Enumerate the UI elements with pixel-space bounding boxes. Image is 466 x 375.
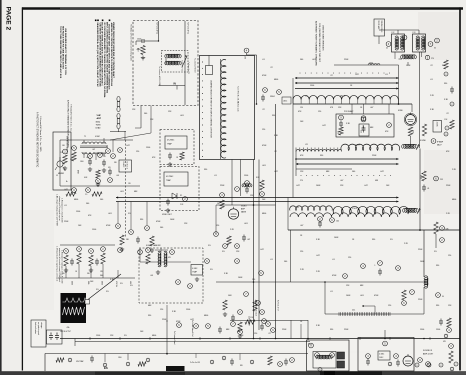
svg-text:.01: .01 bbox=[262, 59, 265, 61]
svg-text:35: 35 bbox=[434, 48, 436, 50]
svg-text:220K: 220K bbox=[162, 319, 167, 321]
svg-text:.001: .001 bbox=[180, 115, 184, 117]
svg-text:TO PIX: TO PIX bbox=[362, 125, 364, 131]
circled ref 15 bbox=[330, 218, 335, 223]
svg-text:470K: 470K bbox=[262, 145, 267, 147]
IF row3 winding line A bbox=[116, 197, 399, 199]
wire tuner vertical left bbox=[158, 21, 160, 41]
wire IF link line bbox=[334, 64, 399, 66]
capacitor C60 bbox=[379, 269, 381, 272]
svg-text:To Junction of R2 & C6B: To Junction of R2 & C6B bbox=[158, 66, 161, 86]
svg-text:90: 90 bbox=[442, 296, 444, 298]
svg-text:120: 120 bbox=[388, 305, 391, 307]
svg-text:3900: 3900 bbox=[420, 175, 422, 179]
svg-text:2.5: 2.5 bbox=[85, 194, 87, 196]
wire IF left rail long bbox=[292, 104, 294, 198]
circled bottom right row bbox=[415, 363, 419, 367]
svg-text:4.5MC: 4.5MC bbox=[379, 354, 385, 356]
svg-text:40: 40 bbox=[386, 48, 388, 50]
svg-text:To Pin 2 of V7: To Pin 2 of V7 bbox=[277, 300, 279, 311]
ground mid bbox=[121, 247, 123, 249]
wire PC riser bbox=[307, 320, 309, 340]
circled ref 5 bbox=[111, 154, 116, 159]
svg-text:6800: 6800 bbox=[152, 335, 156, 337]
wire right col drop bbox=[423, 230, 425, 277]
wire waveform pointer bbox=[86, 274, 121, 301]
wire left bus mid bbox=[60, 185, 140, 187]
svg-text:MIXER: MIXER bbox=[58, 173, 65, 175]
svg-text:330: 330 bbox=[114, 162, 117, 164]
svg-text:IF AMP: IF AMP bbox=[437, 141, 444, 144]
svg-text:IN: IN bbox=[174, 84, 177, 86]
resistor R30 bbox=[434, 222, 438, 234]
resistor R afamp bbox=[422, 124, 426, 136]
svg-text:USE SHIELDED LEAD TO TERMINAL: USE SHIELDED LEAD TO TERMINAL 3 OF COIL bbox=[64, 28, 67, 76]
svg-text:To Pin 7 of V1: To Pin 7 of V1 bbox=[181, 60, 183, 71]
wire bottom center bus bbox=[230, 320, 308, 322]
svg-text:470K: 470K bbox=[332, 275, 337, 277]
svg-text:4.5MC: 4.5MC bbox=[435, 122, 437, 128]
svg-text:6800: 6800 bbox=[274, 79, 278, 81]
svg-text:330: 330 bbox=[320, 155, 323, 157]
wire mixer frame bbox=[336, 114, 394, 137]
tuner output wire 1 bbox=[140, 106, 142, 129]
svg-text:270: 270 bbox=[300, 180, 303, 182]
svg-text:To Point of VC: To Point of VC bbox=[156, 22, 159, 35]
svg-text:100K: 100K bbox=[420, 261, 425, 263]
IF row2 winding line C bbox=[296, 168, 352, 170]
svg-text:X1: X1 bbox=[180, 195, 182, 197]
svg-text:.01: .01 bbox=[430, 79, 433, 81]
IF row1 winding line A bbox=[295, 77, 399, 79]
svg-text:SOUND IF: SOUND IF bbox=[423, 350, 433, 352]
svg-text:6: 6 bbox=[451, 369, 452, 371]
label IF AMP 6BZ7 bbox=[431, 139, 436, 144]
svg-text:.047: .047 bbox=[190, 319, 194, 321]
svg-text:330: 330 bbox=[140, 219, 143, 221]
capacitor C50 bbox=[232, 315, 234, 318]
svg-text:120: 120 bbox=[160, 309, 163, 311]
svg-text:To Point of VC: To Point of VC bbox=[187, 22, 190, 35]
svg-text:TWIN: TWIN bbox=[96, 125, 101, 127]
resistor R22 bbox=[220, 200, 224, 209]
svg-text:6800: 6800 bbox=[452, 199, 456, 201]
svg-text:4TH IF: 4TH IF bbox=[355, 145, 360, 147]
ground tuner bbox=[142, 56, 144, 58]
svg-text:220K: 220K bbox=[418, 299, 423, 301]
PC bottom blob bbox=[324, 371, 335, 375]
wire T2 T3 top link bbox=[379, 29, 419, 31]
circled refs right mid 2 bbox=[410, 290, 415, 295]
capacitor C20 bbox=[423, 185, 425, 188]
svg-text:CHANNEL SELECTOR SWITCH SHOWN: CHANNEL SELECTOR SWITCH SHOWN IN CHANNEL… bbox=[210, 80, 213, 139]
svg-text:VIEWED FROM FRONT KNOB END OF: VIEWED FROM FRONT KNOB END OF CONTROL SH… bbox=[112, 22, 115, 79]
IF transformer T2 can bbox=[392, 34, 405, 52]
resistor R20 3900 bbox=[422, 171, 426, 181]
wire L14 left bbox=[399, 58, 403, 60]
svg-text:560: 560 bbox=[100, 199, 103, 201]
transformer T1 primary bbox=[165, 54, 181, 58]
svg-text:.001: .001 bbox=[360, 295, 364, 297]
svg-text:6: 6 bbox=[223, 358, 224, 360]
wire center drop 2 bbox=[258, 160, 260, 331]
inductor L10 1000 bbox=[368, 64, 380, 65]
transformer T1 dashed enclosure bbox=[162, 51, 189, 73]
VHF tuner dashed enclosure bbox=[133, 21, 198, 106]
box sound takeoff bbox=[191, 265, 203, 276]
IF row1 winding line C bbox=[295, 88, 399, 90]
svg-text:1500: 1500 bbox=[420, 329, 424, 331]
resistor R23 bbox=[227, 236, 231, 245]
IF transformer T3 can bbox=[413, 34, 426, 52]
svg-text:120: 120 bbox=[318, 111, 321, 113]
svg-text:VIDEO: VIDEO bbox=[241, 206, 247, 208]
AF amp small box bbox=[433, 121, 442, 133]
svg-text:6800: 6800 bbox=[204, 315, 208, 317]
circled refs bottom center bbox=[177, 323, 182, 328]
svg-text:-24-: -24- bbox=[66, 327, 70, 329]
resistor R4 bbox=[63, 155, 67, 164]
tube V5 sound bbox=[403, 356, 413, 366]
svg-text:47: 47 bbox=[106, 146, 108, 148]
legend note box bbox=[31, 320, 46, 347]
svg-text:Italicized values: Italicized values bbox=[34, 322, 37, 334]
svg-text:TRAP: TRAP bbox=[192, 270, 198, 273]
svg-text:L14: L14 bbox=[402, 56, 405, 58]
svg-text:.01: .01 bbox=[385, 74, 388, 76]
svg-text:560: 560 bbox=[100, 275, 103, 277]
svg-text:330: 330 bbox=[204, 169, 207, 171]
svg-text:1500: 1500 bbox=[436, 329, 440, 331]
svg-text:470: 470 bbox=[337, 131, 339, 134]
transformer T1 tuning arrow bbox=[182, 56, 187, 67]
wire sound feeds bbox=[384, 330, 386, 338]
resistor bank bbox=[64, 255, 68, 266]
circled refs mixer bbox=[361, 117, 366, 122]
svg-text:100K: 100K bbox=[316, 185, 321, 187]
wire mixer frame drops bbox=[351, 104, 353, 114]
svg-text:120: 120 bbox=[300, 107, 303, 109]
resistor R12 470 bbox=[339, 127, 343, 135]
node junction row1 bbox=[398, 103, 400, 105]
svg-text:100K: 100K bbox=[238, 277, 243, 279]
capacitor C7 bbox=[137, 237, 139, 240]
IF row1 coil bbox=[293, 95, 398, 99]
channel selector switch enclosure bbox=[200, 56, 255, 160]
svg-text:330: 330 bbox=[87, 273, 90, 275]
resistor R6 bbox=[66, 192, 76, 196]
svg-text:TRAP: TRAP bbox=[166, 179, 172, 182]
bus tick marks bbox=[89, 337, 91, 340]
channel selector coil stack bbox=[221, 60, 226, 159]
svg-text:L31: L31 bbox=[296, 207, 299, 209]
svg-text:120: 120 bbox=[128, 183, 131, 185]
svg-text:220K: 220K bbox=[446, 185, 451, 187]
wire selector feed bbox=[256, 55, 258, 104]
svg-text:PIX IF AMP: PIX IF AMP bbox=[344, 110, 354, 113]
diode X1 bbox=[172, 193, 177, 199]
svg-text:1500: 1500 bbox=[92, 229, 96, 231]
wire row3 left rail bbox=[287, 198, 289, 231]
svg-text:.01: .01 bbox=[214, 175, 217, 177]
svg-text:© Howard W. Sams & Co., Inc.: © Howard W. Sams & Co., Inc. 1955 bbox=[39, 116, 42, 152]
tube V1 mixer bbox=[406, 115, 416, 125]
svg-text:330: 330 bbox=[372, 239, 375, 241]
right mid parts bbox=[447, 318, 451, 327]
svg-text:IF AGC: IF AGC bbox=[122, 162, 125, 168]
svg-text:.22: .22 bbox=[262, 109, 265, 111]
svg-text:120: 120 bbox=[254, 333, 257, 335]
schematic right border bbox=[459, 7, 461, 370]
svg-text:Tuner Part No. 94-8A (Std. Coi: Tuner Part No. 94-8A (Std. Coil) bbox=[237, 86, 240, 112]
svg-text:© Howard W. Sams & Co., Inc.: © Howard W. Sams & Co., Inc. bbox=[70, 104, 73, 132]
wire mid drops bbox=[117, 202, 119, 224]
svg-text:.047: .047 bbox=[64, 189, 68, 191]
IF row1 winding line B bbox=[295, 82, 399, 84]
wire T4 leads bbox=[83, 140, 85, 144]
svg-text:.1: .1 bbox=[374, 265, 375, 267]
wire C1 to grid bbox=[147, 40, 159, 42]
IF transformer T3 winding 2 bbox=[422, 36, 425, 50]
svg-text:.047: .047 bbox=[370, 107, 373, 109]
svg-text:300Ω: 300Ω bbox=[96, 122, 101, 124]
wire bottom bus stub bbox=[74, 339, 76, 347]
svg-text:.22: .22 bbox=[274, 151, 277, 153]
svg-text:820: 820 bbox=[240, 365, 243, 367]
wire L14 to rail bbox=[407, 62, 409, 65]
capacitor C70 bbox=[367, 359, 369, 362]
svg-text:6CB6: 6CB6 bbox=[398, 110, 403, 112]
svg-text:.22: .22 bbox=[270, 67, 273, 69]
svg-text:120: 120 bbox=[262, 129, 265, 131]
svg-text:.047: .047 bbox=[300, 225, 303, 227]
wire bottom bus 2 bbox=[75, 341, 310, 343]
bottom extra parts right bbox=[388, 362, 392, 366]
wire contrast drops bbox=[253, 290, 255, 339]
svg-text:1500: 1500 bbox=[80, 161, 84, 163]
wire bus y353 drop right bbox=[239, 354, 241, 361]
waveform trace bbox=[63, 307, 85, 315]
wire main bottom bus bbox=[60, 338, 460, 340]
svg-text:To Junction R4 C9: To Junction R4 C9 bbox=[194, 58, 197, 72]
circled ref 4 bbox=[106, 149, 111, 154]
svg-text:B+: B+ bbox=[66, 181, 68, 183]
svg-text:PC-1: PC-1 bbox=[308, 344, 312, 346]
sound discriminator box bbox=[378, 351, 390, 360]
node junction row3 bbox=[419, 229, 421, 231]
potentiometer contrast bbox=[253, 300, 257, 311]
svg-text:120: 120 bbox=[136, 151, 139, 153]
svg-text:120: 120 bbox=[348, 257, 351, 259]
svg-text:140: 140 bbox=[336, 221, 339, 223]
svg-text:220K: 220K bbox=[64, 221, 69, 223]
svg-text:3: 3 bbox=[147, 360, 148, 362]
wire center drop 3 bbox=[231, 160, 233, 206]
svg-text:.01: .01 bbox=[270, 259, 273, 261]
svg-text:470K: 470K bbox=[176, 321, 181, 323]
svg-text:.01: .01 bbox=[330, 291, 333, 293]
PC module box bbox=[307, 340, 350, 371]
svg-text:470K: 470K bbox=[262, 75, 267, 77]
node 160 callout bbox=[244, 48, 249, 53]
wire T1 to frame bbox=[165, 58, 167, 65]
circled refs mid left bbox=[116, 224, 121, 229]
svg-text:470: 470 bbox=[108, 167, 111, 169]
svg-text:5%: 5% bbox=[124, 335, 127, 337]
circled refs mid left 2 bbox=[118, 248, 123, 253]
wire IF row1 right drop bbox=[398, 65, 400, 104]
right edge resistor bbox=[449, 351, 453, 363]
svg-text:220K: 220K bbox=[344, 59, 349, 61]
svg-text:120: 120 bbox=[216, 225, 219, 227]
svg-text:1500: 1500 bbox=[137, 39, 141, 41]
resistor video cluster bbox=[260, 180, 264, 190]
svg-text:100K: 100K bbox=[346, 295, 351, 297]
svg-text:220K: 220K bbox=[344, 329, 349, 331]
svg-text:330: 330 bbox=[148, 315, 151, 317]
capacitor C22 bbox=[246, 187, 248, 190]
svg-text:.047: .047 bbox=[92, 149, 95, 151]
waveform photo black box bbox=[61, 293, 87, 323]
svg-text:L13: L13 bbox=[413, 32, 416, 34]
svg-text:5%: 5% bbox=[434, 251, 437, 253]
svg-text:3RD IF: 3RD IF bbox=[340, 96, 345, 98]
svg-text:255: 255 bbox=[440, 179, 443, 181]
ground bottom left bbox=[65, 268, 67, 270]
svg-text:5%: 5% bbox=[96, 289, 99, 291]
resistor R5 bbox=[72, 152, 76, 161]
wire bottom center riser 1 bbox=[166, 320, 168, 355]
PC inductor L70 bbox=[316, 355, 332, 359]
capacitor C12 bbox=[340, 121, 342, 124]
wire cap left lead bbox=[136, 40, 140, 42]
svg-text:.001: .001 bbox=[244, 223, 248, 225]
wire video amp mesh bbox=[216, 204, 276, 206]
wire AF riser bbox=[411, 104, 413, 112]
wire bottom bus 4 bbox=[240, 351, 370, 353]
sound IF box bbox=[358, 338, 414, 372]
IF row2 dotted shield bbox=[300, 174, 303, 177]
svg-text:5: 5 bbox=[251, 362, 252, 364]
sound trap dashed box bbox=[139, 248, 203, 303]
svg-text:6BZ7: 6BZ7 bbox=[437, 145, 442, 147]
svg-text:.22: .22 bbox=[268, 333, 271, 335]
svg-text:The Make of Tuner Used is Inte: The Make of Tuner Used is Interchangeabl… bbox=[130, 24, 133, 61]
svg-text:330: 330 bbox=[330, 329, 333, 331]
svg-text:VHF: VHF bbox=[97, 115, 102, 117]
trap box 2 dashed bbox=[160, 167, 199, 211]
svg-text:.22: .22 bbox=[446, 113, 449, 115]
svg-text:.001: .001 bbox=[312, 59, 316, 61]
wire antenna to tuner bbox=[118, 129, 120, 132]
wire delay line ends bbox=[390, 313, 424, 315]
interlock jack bbox=[57, 161, 63, 167]
svg-text:5%: 5% bbox=[120, 283, 123, 285]
wire bottom left bus bbox=[60, 244, 115, 246]
svg-text:USED IN SOME VERSIONS: USED IN SOME VERSIONS bbox=[321, 25, 323, 51]
svg-text:A PHOTOFACT STANDARD NOTATI: A PHOTOFACT STANDARD NOTATION SCHEMATIC bbox=[36, 112, 39, 168]
svg-text:To Term 3: To Term 3 bbox=[125, 162, 128, 169]
svg-text:L11: L11 bbox=[305, 96, 308, 98]
svg-text:.22: .22 bbox=[430, 65, 433, 67]
svg-text:135: 135 bbox=[103, 156, 106, 158]
svg-text:.01: .01 bbox=[427, 188, 429, 190]
wire bottom center riser 2 bbox=[290, 320, 292, 339]
ground contrast bbox=[224, 312, 226, 314]
capacitor C30 bbox=[319, 221, 321, 224]
wire row3 bottom rail bbox=[288, 229, 460, 231]
sound takeoff parts bbox=[146, 254, 150, 264]
circled ref 3 bbox=[98, 153, 103, 158]
trap box 1 dashed bbox=[160, 130, 194, 165]
svg-text:470K: 470K bbox=[106, 225, 111, 227]
svg-text:330: 330 bbox=[444, 83, 447, 85]
svg-text:3: 3 bbox=[211, 362, 212, 364]
svg-text:ANT: ANT bbox=[97, 117, 102, 120]
svg-text:1500: 1500 bbox=[76, 211, 80, 213]
svg-text:1000: 1000 bbox=[369, 63, 373, 65]
black component bar bbox=[166, 366, 185, 371]
wire row3 rail to bus bbox=[290, 230, 292, 282]
spark gap box bbox=[47, 330, 63, 344]
inductor L14 peaking bbox=[401, 55, 417, 59]
wire RF bus upper bbox=[60, 139, 133, 141]
node video out bbox=[253, 204, 255, 206]
resistor R60 bbox=[402, 290, 406, 300]
svg-text:47.25MC: 47.25MC bbox=[167, 140, 175, 142]
left cluster small parts bbox=[96, 170, 100, 178]
inductor L30 bbox=[403, 208, 419, 212]
svg-text:SOUND: SOUND bbox=[420, 140, 427, 142]
module box drops bbox=[104, 354, 106, 363]
svg-text:100K: 100K bbox=[170, 219, 175, 221]
svg-text:470K: 470K bbox=[374, 295, 379, 297]
IF row2 coil left tapped bbox=[296, 150, 342, 152]
svg-text:560: 560 bbox=[144, 113, 147, 115]
transformer T5 windings bbox=[158, 251, 161, 267]
svg-text:560: 560 bbox=[86, 203, 89, 205]
bottom extra parts left bbox=[56, 358, 64, 362]
svg-text:J1: J1 bbox=[56, 175, 58, 177]
svg-text:270: 270 bbox=[431, 58, 434, 60]
terminal strip TO RF TUNING COILS bbox=[374, 19, 385, 36]
resistor R7 bbox=[120, 235, 124, 245]
wire center drop 5 bbox=[275, 104, 277, 339]
IF row3 winding line B bbox=[116, 201, 399, 203]
IF transformer T3 winding 1 bbox=[416, 36, 419, 50]
svg-text:120: 120 bbox=[448, 255, 451, 257]
svg-text:.047: .047 bbox=[340, 180, 343, 182]
svg-text:330: 330 bbox=[436, 265, 439, 267]
svg-text:1500: 1500 bbox=[244, 175, 248, 177]
interlock box bbox=[53, 132, 71, 190]
circled ref 14 bbox=[434, 176, 439, 181]
IF row2 winding line A bbox=[296, 158, 399, 160]
IF row3 coil left bbox=[290, 206, 333, 211]
wire resistor row bus bbox=[58, 277, 135, 279]
wire resistor row drops bbox=[65, 266, 67, 278]
svg-text:2. Resistance in ohms K=1000: 2. Resistance in ohms K=1000 bbox=[61, 198, 64, 222]
svg-text:100K: 100K bbox=[406, 65, 411, 67]
circled refs sound takeoff bbox=[176, 280, 181, 285]
inductor L22 bbox=[242, 184, 252, 187]
trap box 1 parts bbox=[169, 153, 171, 156]
svg-text:L21: L21 bbox=[305, 144, 308, 146]
resistor R1 470K bbox=[141, 46, 145, 55]
circled refs contrast top bbox=[205, 259, 210, 264]
IF row1 dotted shield bbox=[299, 72, 302, 75]
capacitor C1 1500 bbox=[140, 40, 143, 42]
